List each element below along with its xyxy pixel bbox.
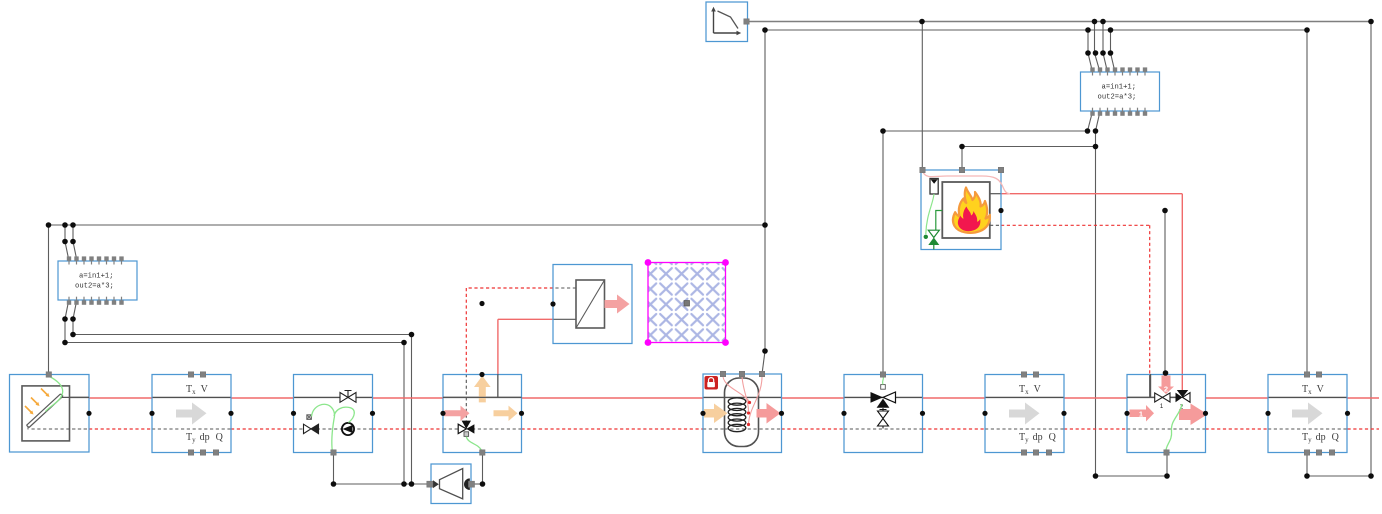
- tank outlet arrow: [757, 403, 781, 424]
- equation block U12: [1081, 72, 1160, 111]
- svg-text:a=in1+1;: a=in1+1;: [79, 273, 114, 281]
- tank inlet arrow: [704, 404, 728, 424]
- U6 pipe line overlay: [443, 374, 522, 398]
- svg-text:TydpQ: TydpQ: [1302, 432, 1340, 444]
- U2 top pins: [67, 256, 124, 264]
- pipe U19 pins: [1304, 372, 1334, 455]
- wire: equation U2 top pin drops: [65, 225, 77, 261]
- U17 green wire: [1166, 404, 1182, 452]
- U2 bottom pins: [67, 297, 124, 305]
- wire: return pipe dashed line (red between blocks): [89, 428, 1379, 430]
- junction dots left feedback: [46, 222, 768, 354]
- U12 top pins: [1090, 67, 1147, 75]
- U17 butterfly valve: [1155, 393, 1170, 410]
- tank coil: [728, 398, 746, 432]
- svg-text:1: 1: [1139, 410, 1143, 419]
- V2 green squiggle: [882, 376, 885, 385]
- wire: equation U2 bottom out2 to riser x=411.5: [73, 299, 412, 484]
- U6 top port dot: [479, 372, 484, 377]
- pipe block U3: [152, 375, 231, 453]
- heat exchanger U9: [553, 265, 632, 344]
- pipe U16 pins: [1021, 372, 1051, 455]
- storage tank U7: [703, 374, 782, 453]
- collector top pin: [46, 372, 51, 377]
- boiler thermostat: [930, 179, 938, 195]
- boiler pink top wire: [923, 172, 1010, 194]
- wire: fan outlet to diverter bottom pin: [471, 453, 483, 485]
- pipe U3 pins: [188, 372, 218, 455]
- U12 bottom pins: [1090, 108, 1147, 116]
- svg-text:2: 2: [1164, 385, 1168, 394]
- U17 three-way valve: [1139, 385, 1190, 419]
- boiler flame icon: [953, 188, 990, 233]
- wire: second top bus: [765, 30, 1307, 374]
- wire: pump block bottom pin to fan inlet: [334, 453, 429, 485]
- wire: branch to boiler top center pin: [962, 147, 1096, 171]
- svg-text:out2=a*3;: out2=a*3;: [1098, 94, 1137, 102]
- boiler green control wire: [926, 194, 934, 234]
- wire: red supply boiler to mixer: [990, 194, 1182, 391]
- block port dots: [86, 411, 1350, 416]
- boiler green valve: [924, 230, 940, 249]
- U4 green control wire: [312, 404, 355, 451]
- wire: top bus drop to boiler left pin: [921, 22, 923, 171]
- wire: equation U2 bottom out1 to riser x=404: [65, 299, 404, 484]
- wire: long feedback line to collector, node row y=225: [49, 225, 766, 374]
- wire: red supply branch diverter to heat exchanger: [498, 319, 576, 397]
- wire: equation U12 top pin drops: [1088, 22, 1115, 73]
- pipe block U19: [1268, 375, 1347, 453]
- svg-text:a=in1+1;: a=in1+1;: [1102, 84, 1137, 92]
- U17 pipe line overlay: [1127, 374, 1177, 398]
- svg-text:TxV: TxV: [186, 384, 209, 396]
- wire: equation U12 bottom to valve block V2: [883, 112, 1100, 375]
- wire: stub above mixer: [1164, 211, 1166, 375]
- wire: vertical from bus to storage tank top pin: [762, 30, 765, 374]
- fan block U5: [431, 464, 471, 504]
- wire: return pipe dashed segments inside blocks: [32, 428, 1348, 430]
- V2 top pin: [880, 372, 885, 377]
- boiler U14: [921, 170, 1001, 250]
- boiler right port dot: [998, 208, 1003, 213]
- U13 output pin: [744, 19, 749, 24]
- equation block U2: [58, 261, 137, 300]
- svg-text:out2=a*3;: out2=a*3;: [75, 283, 114, 291]
- wire: equation U12 bottom out2 down to mixer bottom pin: [1096, 131, 1168, 476]
- U6 green wire: [466, 437, 482, 451]
- tank lock icon: [705, 376, 719, 390]
- node near U9: [479, 301, 484, 306]
- svg-text:TxV: TxV: [1019, 384, 1042, 396]
- boiler top pins: [920, 167, 1004, 172]
- wire: red dashed return heat exchanger to diverter: [466, 288, 576, 421]
- mixer block U17: [1127, 375, 1208, 453]
- svg-text:1: 1: [1160, 404, 1164, 410]
- collector control green wire: [46, 376, 63, 412]
- diverter block U6: [443, 375, 522, 453]
- junction dots bottom runs: [331, 332, 1374, 487]
- junction dots top buses: [762, 19, 1374, 56]
- U5 pins: [427, 481, 475, 487]
- svg-text:TydpQ: TydpQ: [186, 432, 224, 444]
- radiator U10: [645, 259, 729, 346]
- valve-pump block U4: [294, 375, 373, 453]
- wire: red dashed return boiler to mixer: [990, 225, 1150, 397]
- junction dots equation U12 outputs: [880, 128, 1168, 213]
- pipe block U16: [985, 375, 1064, 453]
- tank supply line crossing: [725, 397, 759, 429]
- U6 bottom pin: [480, 450, 485, 455]
- collector pipe lines overlay: [32, 397, 90, 429]
- wire: supply pipe line segments inside blocks (black): [62, 396, 1348, 398]
- svg-text:TydpQ: TydpQ: [1019, 432, 1057, 444]
- U17 bottom pin: [1164, 450, 1169, 455]
- valve block V2: [844, 375, 923, 453]
- U6 three-way valve: [458, 421, 474, 437]
- tank top pins: [720, 371, 764, 376]
- wire: supply pipe line (red between blocks): [89, 397, 1379, 399]
- svg-text:TxV: TxV: [1302, 384, 1325, 396]
- U4 bottom pin: [331, 450, 336, 455]
- controller U13: [706, 2, 748, 42]
- tank sensor curves: [723, 377, 762, 427]
- U17 top node dot: [1163, 370, 1169, 376]
- solar collector U1: [10, 375, 90, 453]
- wire: top bus from controller U13 output: [746, 22, 1371, 477]
- boiler green elbow: [936, 211, 943, 231]
- U9 left port dot: [550, 301, 555, 306]
